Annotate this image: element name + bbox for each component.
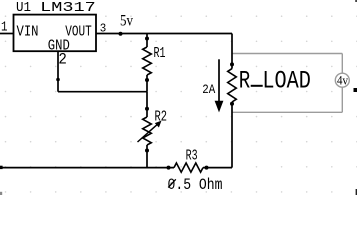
svg-text:2: 2 — [58, 51, 67, 69]
svg-text:U1: U1 — [16, 0, 31, 16]
svg-text:R1: R1 — [154, 45, 166, 62]
svg-text:1: 1 — [1, 19, 8, 35]
svg-text:LM317: LM317 — [40, 0, 95, 16]
svg-text:R: R — [239, 67, 251, 96]
svg-text:VIN: VIN — [17, 25, 39, 41]
svg-text:R3: R3 — [186, 148, 198, 165]
svg-text:LOAD: LOAD — [262, 67, 311, 96]
svg-text:R2: R2 — [155, 109, 168, 126]
svg-text:2A: 2A — [202, 83, 215, 97]
svg-text:0.5 Ohm: 0.5 Ohm — [168, 176, 223, 194]
svg-text:3: 3 — [100, 22, 107, 36]
svg-text:5v: 5v — [120, 12, 133, 29]
svg-text:4v: 4v — [337, 74, 349, 88]
